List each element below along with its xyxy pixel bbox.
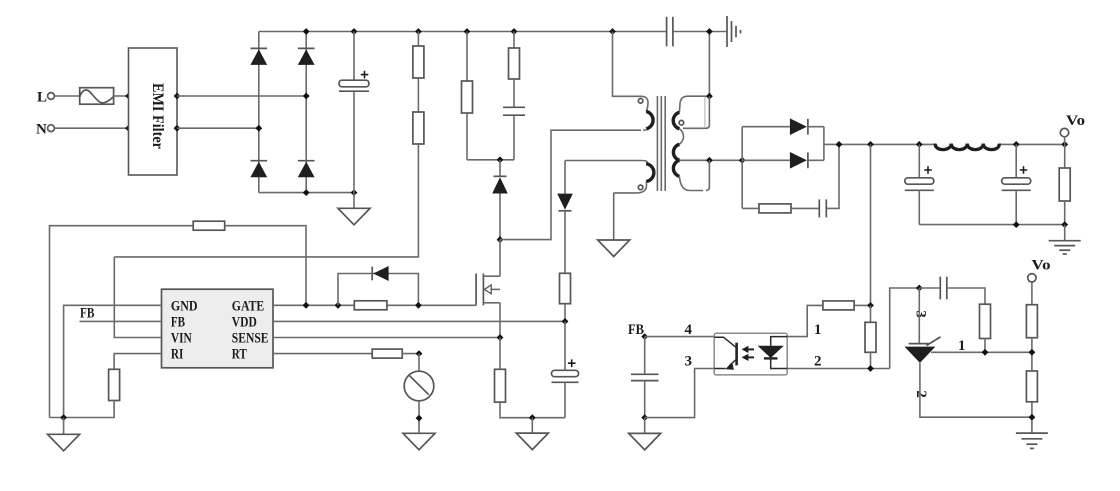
node junction dot divider bottom [1029,414,1036,421]
svg-text:FB: FB [80,306,95,322]
svg-text:2: 2 [814,354,822,370]
wire GND pin to left rail [64,305,162,417]
node junction dot sense ground [529,414,536,421]
node junction dot VDD node [562,318,569,325]
resistor divider lower [1026,371,1037,402]
ground below FB cap [629,418,661,450]
ground chassis at top rail (rotated) [727,16,741,47]
capacitor FB [631,337,659,418]
diode aux rectifier [557,161,573,274]
node junction dot L at EMI left [125,93,132,100]
node junction dot FB node [641,333,648,340]
svg-text:VIN: VIN [171,331,192,347]
capacitor bulk electrolytic [339,32,369,193]
diode bridge D2 top-right [298,48,315,65]
wire bottom diode branch [742,159,790,161]
svg-text:2: 2 [913,390,929,398]
node junction dot snubber to rail [836,141,843,148]
diode output bottom (pointing right) [790,152,824,169]
wire divider bottom to ground [1031,402,1033,433]
node junction dot GATE at diode branch left [335,302,342,309]
wire secondary top stub [688,95,709,97]
wire L terminal to fuse [54,95,79,97]
wire drain node to primary bottom [500,130,641,239]
node junction dot FB ground [641,414,648,421]
svg-text:FB: FB [171,314,185,330]
ground below bulk cap [338,193,370,225]
capacitor output 1 electrolytic [905,144,934,224]
wire output rail [824,143,1065,145]
svg-text:1: 1 [814,322,822,338]
resistor startup lower [413,112,424,144]
transformer secondary phase dot [679,120,684,125]
node junction dot SENSE at source [497,334,504,341]
node junction dot rail at cap1 [916,141,923,148]
optocoupler U2 [714,333,787,375]
node junction dot secondary output [739,157,746,164]
MOSFET Q1 [476,240,500,338]
wire RCD bottom joining [467,159,514,161]
capacitor output 2 electrolytic [1002,144,1031,224]
diode clamp (RCD) [492,160,508,240]
transformer secondary winding [673,96,703,190]
wire VDD pin line [273,320,565,322]
node junction dot rail at cap2 [1013,141,1020,148]
node junction dot bottom rail at right column [303,189,310,196]
node junction dot RCD bottom [497,156,504,163]
wire output bottom rail [919,224,1064,226]
transformer aux winding [614,161,654,193]
node junction dot rail at Vo [1061,141,1068,148]
wire top rail to secondary top [708,32,710,97]
IC controller U1 [162,289,274,368]
wire oscillator to ground [418,401,420,434]
node junction dot TL431 cathode node [916,285,923,292]
node junction dot opto riser [867,141,874,148]
svg-text:GATE: GATE [232,298,264,314]
node junction dot GATE at left riser [303,302,310,309]
node L terminal [37,90,54,106]
wire gate diode branch [338,274,418,306]
resistor RI [50,369,120,417]
node junction dot bottom rail at cap2 [1013,221,1020,228]
wire top rail right of Y-cap [673,31,727,33]
node junction dot L on right column [303,93,310,100]
node Vo terminal top [1060,113,1085,144]
node junction dot divider mid [1029,349,1036,356]
wire output diode bracket [741,127,743,209]
resistor feedback top-left [193,221,306,305]
ground earth output section [1049,225,1081,254]
transformer core [657,96,665,191]
resistor output load [1059,144,1070,224]
wire FB to opto pin4 [645,336,715,338]
svg-text:FB: FB [628,322,644,338]
wire aux winding to ground [613,193,615,240]
diode output top (pointing right) [790,118,824,135]
ground below aux winding [598,240,630,257]
diode bridge D4 bottom-right [298,161,315,178]
node junction dot N at EMI right [174,125,181,132]
inductor output [935,144,999,150]
resistor snubber output [742,204,819,213]
node junction dot bottom rail at bulk cap [351,189,358,196]
wire diode cathode bracket [823,127,825,161]
wire TL431 anode to divider bottom [920,363,1032,417]
svg-text:SENSE: SENSE [232,331,269,347]
wire GATE pin line [273,304,476,306]
svg-text:RI: RI [171,347,184,363]
ground earth feedback divider [1016,433,1048,448]
capacitor Y-cap on top rail [667,17,673,47]
wire divider mid [1031,338,1033,371]
wire opto pin2 line [787,368,890,370]
svg-text:3: 3 [913,310,929,318]
node junction dot drain node [497,236,504,243]
wire secondary shield faint inner line [704,97,706,128]
resistor RT [372,349,419,358]
ground left (IC) [48,418,80,451]
diode gate (pointing left) [372,266,388,281]
svg-text:GND: GND [171,298,198,314]
resistor RCD upper [509,32,520,108]
node Vo terminal bottom [1028,258,1051,305]
svg-text:VDD: VDD [232,314,257,330]
resistor clamp (left of RCD) [462,32,473,160]
wire opto pin1 to pullup resistor [787,305,823,336]
node junction dot GND ground [60,414,67,421]
resistor TL431 feedback [980,304,991,352]
wire bridge left column [258,32,260,193]
capacitor RCD [503,107,525,160]
wire RT to oscillator [418,354,420,372]
wire RT pin line [273,353,372,355]
wire opto pin3 loop [645,369,715,418]
wire EMI to bridge right column (L) [177,95,306,97]
wire pin2 riser to TL431 cathode node [890,288,920,369]
svg-text:EMI Filter: EMI Filter [149,83,166,149]
svg-text:4: 4 [685,322,693,338]
node junction dot top rail at secondary feed [706,28,713,35]
wire fuse to EMI filter [114,95,129,97]
node junction dot ref at feedback resistor [982,349,989,356]
oscillator symbol (circle with diagonal) [404,371,434,401]
resistor VDD series [560,273,571,321]
diode bridge D3 bottom-left [250,161,267,178]
transformer aux phase dot [638,185,643,190]
fuse F1 [80,88,114,105]
ground below sense node [516,418,548,450]
wire between startup resistors [417,78,419,112]
node junction dot N at EMI left [125,125,132,132]
node junction dot L at EMI right [174,93,181,100]
wire collector node through resistor to pin2 line [870,305,872,368]
wire secondary tap to output [679,159,742,161]
svg-text:3: 3 [685,354,693,370]
node junction dot pin2 at bias resistor [867,365,874,372]
wire VIN riser down to VIN pin [114,257,161,338]
node junction dot top rail at RCD cap [511,28,518,35]
wire top rail [259,31,667,33]
capacitor VDD electrolytic [552,321,579,417]
node junction dot top rail at primary feed [609,28,616,35]
ground below oscillator [403,433,435,450]
resistor divider upper [1026,305,1037,338]
wire FB pin stub [80,320,162,322]
wire outer left rail [50,226,194,418]
wire RI pin to resistor [114,354,161,370]
resistor startup upper [413,32,424,79]
node junction dot top rail at bulk cap [351,28,358,35]
svg-text:RT: RT [232,347,247,363]
wire startup chain down to VIN branch corner [114,144,418,257]
EMI filter block [129,48,178,175]
wire TL431 ref line [931,351,1032,353]
node junction dot bottom rail at load [1061,221,1068,228]
node junction dot secondary top [706,93,713,100]
resistor opto bias vertical [865,322,876,352]
node junction dot RT corner [416,350,423,357]
transformer primary phase dot [638,99,643,104]
wire N terminal to EMI filter [54,127,128,129]
wire bottom rail [259,192,354,194]
wire top diode branch [742,126,790,128]
resistor sense [495,338,566,418]
capacitor snubber output [819,144,839,217]
node junction dot top rail at snubber resistor [464,28,471,35]
node junction dot top rail at startup chain [415,28,422,35]
wire EMI to bridge left column (N) [177,127,259,129]
node junction dot GATE at diode branch right [415,302,422,309]
wire top rail down to primary top [613,32,642,97]
wire bridge right column [305,32,307,193]
node junction dot opto collector node [867,302,874,309]
wire SENSE pin line [273,337,500,339]
wire opto riser down [870,144,872,305]
svg-text:Vo: Vo [1032,258,1051,274]
node junction dot below oscillator [416,415,423,422]
resistor gate [354,301,387,310]
wire aux diode to aux winding [565,160,641,162]
svg-text:N: N [36,122,47,138]
resistor opto pullup horizontal [823,301,871,310]
svg-text:L: L [37,90,47,106]
node junction dot top rail at right column [303,28,310,35]
TL431 shunt regulator [905,288,941,363]
wire secondary shield loop [683,96,709,128]
diode bridge D1 top-left [250,48,267,65]
transformer primary winding [641,96,653,130]
node junction dot secondary tap [706,157,713,164]
svg-text:Vo: Vo [1066,113,1085,129]
wire secondary bottom hook [706,160,710,190]
node junction dot N on left column [255,125,262,132]
capacitor TL431 compensation [919,277,985,305]
node N terminal [36,122,54,138]
